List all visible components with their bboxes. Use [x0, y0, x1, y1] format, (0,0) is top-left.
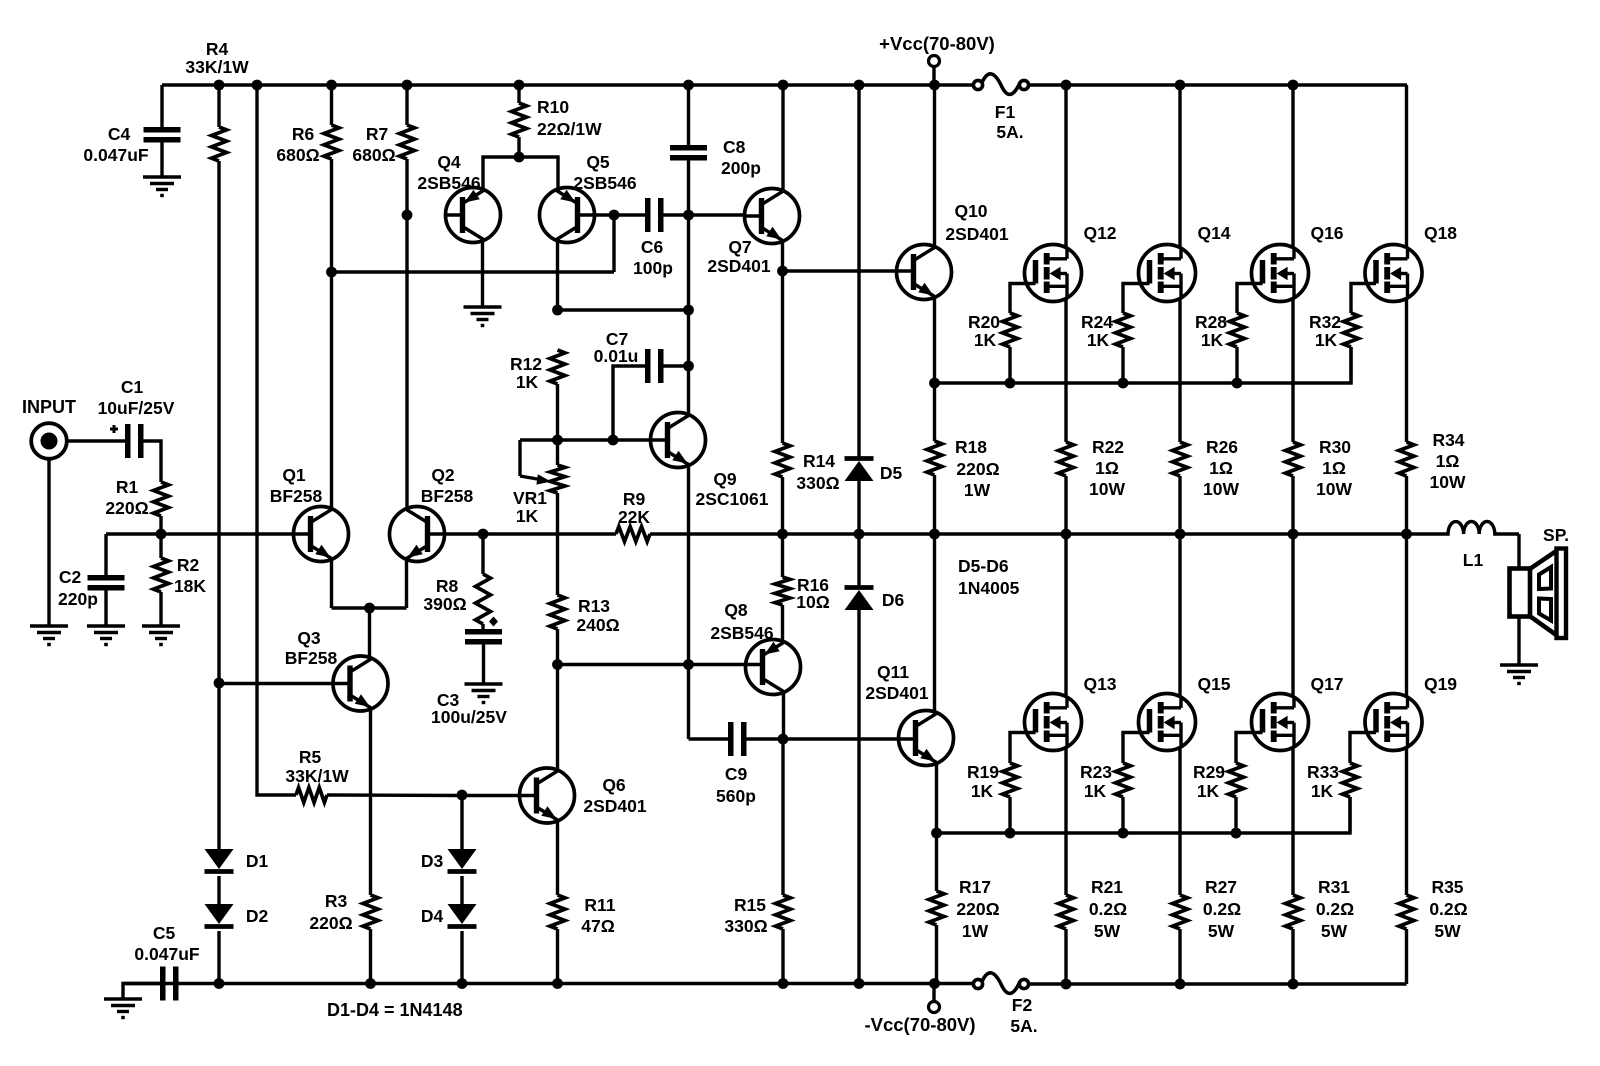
ground C5: [104, 997, 142, 1000]
svg-text:1K: 1K: [1311, 781, 1334, 801]
wire Q3 emitter to R3: [369, 707, 372, 895]
svg-text:R5: R5: [299, 747, 322, 767]
wire wiper line to Q9 base: [613, 438, 652, 441]
junction R18 output: [929, 529, 940, 540]
wire R2 to ground: [159, 592, 162, 626]
svg-text:R17: R17: [959, 877, 991, 897]
wire jack to C1: [66, 439, 125, 442]
wire to Q7 base: [689, 213, 746, 216]
wire rail corner to C4: [160, 85, 163, 127]
wire R28 to gate bus: [1235, 347, 1238, 383]
svg-text:R11: R11: [584, 895, 615, 915]
junction rail Q14: [1175, 80, 1186, 91]
svg-text:5W: 5W: [1208, 921, 1235, 941]
wire R16 to Q8 emitter: [781, 605, 784, 643]
capacitor C1: [125, 424, 131, 458]
wire R34 to output: [1405, 476, 1408, 534]
svg-text:560p: 560p: [716, 786, 756, 806]
wire output to Q19 drain: [1405, 534, 1408, 698]
transistor Q3: [333, 656, 388, 711]
svg-text:33K/1W: 33K/1W: [185, 57, 249, 77]
wire Q18 gate lead: [1351, 284, 1376, 314]
svg-text:100u/25V: 100u/25V: [431, 707, 507, 727]
junction R19 gate bus: [1005, 828, 1016, 839]
wire jack to ground: [47, 458, 50, 626]
svg-text:R22: R22: [1092, 437, 1124, 457]
svg-text:D5: D5: [880, 463, 903, 483]
resistor R32: [1344, 313, 1359, 347]
svg-text:D3: D3: [421, 851, 444, 871]
junction R17 bottom rail: [929, 978, 940, 989]
wire D5 to feedback line: [857, 481, 860, 534]
wire Q12 source to R22: [1064, 298, 1067, 442]
diode D4: [448, 904, 477, 924]
wire bottom rail left of fuse: [123, 982, 973, 985]
resistor R17: [929, 891, 944, 925]
svg-text:Q13: Q13: [1083, 674, 1116, 694]
svg-text:1K: 1K: [1201, 330, 1224, 350]
wire C9 to Q11 base: [747, 737, 900, 740]
resistor R21: [1059, 895, 1074, 929]
svg-text:R8: R8: [436, 576, 459, 596]
wire Q11 emitter down: [935, 762, 938, 891]
wire R13 to Q8 base line: [556, 629, 559, 665]
mosfet Q13: [1025, 694, 1082, 751]
fuse F2: [973, 979, 982, 988]
resistor R18: [927, 441, 942, 475]
transistor Q9: [651, 413, 706, 468]
wire R15 to bottom bus: [781, 929, 784, 983]
svg-text:D6: D6: [882, 590, 905, 610]
wire R29 to gate bus: [1234, 797, 1237, 833]
capacitor C8: [670, 145, 707, 151]
wire Q18 source to R34: [1405, 298, 1408, 442]
fuse F1: [973, 80, 982, 89]
svg-text:C6: C6: [641, 237, 664, 257]
svg-text:C1: C1: [121, 377, 144, 397]
wire R21 to bottom rail: [1064, 929, 1067, 984]
svg-text:240Ω: 240Ω: [576, 615, 619, 635]
wire rail to R4: [217, 85, 220, 127]
junction Q5 base node: [609, 210, 620, 221]
wire Q8 base line: [558, 663, 748, 666]
junction R6 mirror line: [326, 267, 337, 278]
svg-text:0.047uF: 0.047uF: [83, 145, 148, 165]
svg-text:10W: 10W: [1430, 472, 1466, 492]
svg-text:R21: R21: [1091, 877, 1123, 897]
wire Q7 emitter to Q10 base: [783, 269, 899, 272]
svg-text:1K: 1K: [971, 781, 994, 801]
junction D5 feedback: [854, 529, 865, 540]
svg-text:Q16: Q16: [1310, 223, 1343, 243]
resistor R30: [1286, 442, 1301, 476]
svg-text:220Ω: 220Ω: [309, 913, 352, 933]
wire C4 to ground: [160, 143, 163, 178]
svg-text:1W: 1W: [964, 480, 991, 500]
junction output column 2: [1175, 529, 1186, 540]
resistor R13: [550, 595, 565, 629]
ground C3: [465, 682, 503, 685]
svg-text:D1: D1: [246, 851, 269, 871]
svg-text:Q1: Q1: [282, 465, 306, 485]
mosfet Q19: [1365, 694, 1422, 751]
wire C6 node down: [612, 215, 615, 272]
svg-text:SP.: SP.: [1543, 525, 1569, 545]
svg-text:C5: C5: [153, 923, 176, 943]
transistor Q11: [899, 711, 954, 766]
ground C4: [143, 175, 181, 178]
svg-text:F2: F2: [1012, 995, 1033, 1015]
junction rail Q16: [1288, 80, 1299, 91]
wire rail to Q18 drain: [1405, 85, 1408, 248]
svg-text:1Ω: 1Ω: [1322, 458, 1346, 478]
wire R18 to output line: [933, 475, 936, 534]
svg-text:1K: 1K: [974, 330, 997, 350]
resistor R29: [1229, 763, 1244, 797]
wire Q7 emitter node to R14: [781, 271, 784, 443]
junction R23 gate bus: [1118, 828, 1129, 839]
wire R30 to output: [1291, 476, 1294, 534]
junction C8 C7 line: [683, 361, 694, 372]
speaker SP: [1510, 569, 1531, 617]
wire bottom rail right of fuse: [1029, 982, 1407, 985]
svg-text:33K/1W: 33K/1W: [285, 766, 349, 786]
svg-text:R26: R26: [1206, 437, 1238, 457]
svg-text:Q4: Q4: [437, 152, 461, 172]
wire Q17 gate lead: [1236, 733, 1263, 764]
svg-text:5W: 5W: [1094, 921, 1121, 941]
ground R2: [142, 624, 180, 627]
junction rail R6: [326, 80, 337, 91]
capacitor C6: [645, 198, 651, 232]
junction emitter tie: [364, 603, 375, 614]
wire Q19 source to R35: [1405, 747, 1408, 896]
capacitor C5: [160, 967, 166, 1001]
wire down to Q6 collector: [556, 665, 559, 772]
svg-text:5A.: 5A.: [996, 122, 1023, 142]
svg-text:1K: 1K: [516, 372, 539, 392]
capacitor C9: [728, 722, 734, 756]
svg-text:C4: C4: [108, 124, 131, 144]
svg-text:0.2Ω: 0.2Ω: [1316, 899, 1354, 919]
svg-text:10Ω: 10Ω: [796, 592, 830, 612]
svg-text:220p: 220p: [58, 589, 98, 609]
svg-text:200p: 200p: [721, 158, 761, 178]
wire R7 to Q2 collector: [405, 159, 408, 510]
svg-text:BF258: BF258: [285, 648, 338, 668]
resistor R12: [550, 350, 565, 384]
svg-text:100p: 100p: [633, 258, 673, 278]
svg-text:2SD401: 2SD401: [865, 683, 929, 703]
svg-text:0.047uF: 0.047uF: [134, 944, 199, 964]
junction R28 gate bus: [1232, 378, 1243, 389]
wire rail to Q16 drain: [1291, 85, 1294, 248]
wire R32 to gate bus: [1349, 347, 1352, 383]
svg-text:10W: 10W: [1203, 479, 1239, 499]
svg-text:1K: 1K: [1315, 330, 1338, 350]
svg-text:R30: R30: [1319, 437, 1351, 457]
wire L1 to speaker: [1517, 534, 1520, 568]
svg-text:1W: 1W: [962, 921, 989, 941]
wire Q13 source to R21: [1064, 747, 1067, 896]
svg-text:Q18: Q18: [1424, 223, 1457, 243]
junction output column 4: [1401, 529, 1412, 540]
transistor Q6: [520, 768, 575, 823]
junction R12 top: [552, 305, 563, 316]
mosfet Q17: [1252, 694, 1309, 751]
svg-text:680Ω: 680Ω: [276, 145, 319, 165]
junction R15 bottom bus: [778, 978, 789, 989]
svg-text:Q14: Q14: [1197, 223, 1230, 243]
svg-text:2SD401: 2SD401: [583, 796, 647, 816]
mosfet Q18: [1365, 245, 1422, 302]
junction output column 3: [1288, 529, 1299, 540]
mosfet Q12: [1025, 245, 1082, 302]
diode D6: [845, 585, 874, 590]
junction rail R4: [214, 80, 225, 91]
transistor Q7: [745, 189, 800, 244]
svg-text:Q12: Q12: [1083, 223, 1116, 243]
svg-text:L1: L1: [1463, 550, 1484, 570]
wire rail to Q7 collector: [781, 85, 784, 192]
junction R5 D3 node: [457, 790, 468, 801]
junction rail Q12: [1061, 80, 1072, 91]
capacitor C7: [645, 349, 651, 383]
wire rail down to R5: [257, 85, 296, 795]
ground speaker: [1500, 663, 1538, 666]
wire D3 node down: [460, 795, 463, 849]
svg-text:R29: R29: [1193, 762, 1225, 782]
svg-text:D1-D4 = 1N4148: D1-D4 = 1N4148: [327, 1000, 463, 1020]
svg-text:0.2Ω: 0.2Ω: [1089, 899, 1127, 919]
svg-text:2SB546: 2SB546: [710, 623, 774, 643]
svg-text:5W: 5W: [1434, 921, 1461, 941]
wire R3 to bottom bus: [369, 929, 372, 983]
junction bottom rail column 1: [1061, 979, 1072, 990]
wire D2 to bottom bus: [217, 931, 220, 983]
svg-text:R32: R32: [1309, 312, 1341, 332]
wire Q4 Q5 emitter tie: [483, 157, 558, 192]
wire R9 to output column: [650, 532, 1407, 535]
wire Q16 gate lead: [1237, 284, 1263, 314]
wire Q8 node to R15: [781, 739, 784, 895]
wire Q13 gate lead: [1010, 733, 1036, 764]
wire Q12 gate lead: [1010, 284, 1036, 314]
svg-text:10uF/25V: 10uF/25V: [98, 398, 175, 418]
input jack: [31, 423, 67, 459]
svg-text:Q6: Q6: [602, 775, 626, 795]
resistor R24: [1116, 313, 1131, 347]
resistor R31: [1286, 895, 1301, 929]
svg-text:R10: R10: [537, 97, 569, 117]
svg-text:1K: 1K: [1087, 330, 1110, 350]
transistor Q5: [540, 188, 595, 243]
junction R20 gate bus: [1005, 378, 1016, 389]
resistor R3: [363, 895, 378, 929]
svg-text:2SB546: 2SB546: [417, 173, 481, 193]
svg-text:2SD401: 2SD401: [707, 256, 771, 276]
wire VR1 to R13: [556, 493, 559, 595]
wire C2 to ground: [104, 591, 107, 627]
wire rail to Q14 drain: [1178, 85, 1181, 248]
junction R7 Q4 base: [402, 210, 413, 221]
diode D1: [205, 849, 234, 869]
terminal +Vcc: [929, 56, 940, 67]
svg-text:330Ω: 330Ω: [796, 473, 839, 493]
junction R13 Q6 collector: [552, 659, 563, 670]
wire feedback line to R9: [483, 532, 616, 535]
svg-text:47Ω: 47Ω: [581, 916, 615, 936]
svg-text:R27: R27: [1205, 877, 1237, 897]
svg-text:Q9: Q9: [713, 469, 737, 489]
wire output to Q17 drain: [1291, 534, 1294, 698]
svg-text:R1: R1: [116, 477, 139, 497]
svg-text:VR1: VR1: [513, 488, 547, 508]
svg-text:1Ω: 1Ω: [1436, 451, 1460, 471]
junction output column 1: [1061, 529, 1072, 540]
svg-text:INPUT: INPUT: [22, 397, 76, 417]
wire C1 to R1: [144, 441, 162, 482]
wire C6 node to C6: [614, 213, 645, 216]
resistor R7: [400, 125, 415, 159]
inductor L1: [1407, 521, 1520, 534]
svg-text:Q19: Q19: [1424, 674, 1457, 694]
resistor R9: [616, 527, 650, 542]
wire output to Q13 drain: [1064, 534, 1067, 698]
svg-text:F1: F1: [995, 102, 1016, 122]
wire Q17 source to R31: [1291, 747, 1294, 896]
svg-text:R7: R7: [366, 124, 388, 144]
wire C6 to C8 node: [664, 213, 689, 216]
svg-text:D2: D2: [246, 906, 269, 926]
wire rail to R10: [517, 85, 520, 103]
resistor R6: [324, 125, 339, 159]
polarity mark C3: [489, 617, 498, 627]
wire rail to Q10 collector: [933, 85, 936, 248]
wire rail corner to Q18: [1405, 83, 1409, 86]
svg-text:Q7: Q7: [728, 237, 751, 257]
svg-text:1K: 1K: [1197, 781, 1220, 801]
resistor R23: [1116, 763, 1131, 797]
wire tie to Q3 collector: [368, 608, 371, 660]
wire Q6 emitter to R11: [556, 820, 559, 895]
wire C3 to ground: [482, 645, 485, 685]
resistor R26: [1173, 442, 1188, 476]
wire Q14 gate lead: [1123, 284, 1150, 314]
transistor Q1: [294, 507, 349, 562]
svg-text:R14: R14: [803, 451, 835, 471]
svg-text:5W: 5W: [1321, 921, 1348, 941]
junction C8 Q7 base: [683, 210, 694, 221]
svg-text:-Vcc(70-80V): -Vcc(70-80V): [864, 1014, 975, 1035]
wire Q15 gate lead: [1123, 733, 1150, 764]
wire +Vcc terminal stub: [932, 67, 935, 85]
junction Q11 gate bus: [931, 828, 942, 839]
svg-text:R20: R20: [968, 312, 1000, 332]
svg-text:Q10: Q10: [954, 201, 987, 221]
junction rail Q7 collector: [778, 80, 789, 91]
svg-text:R2: R2: [177, 555, 200, 575]
junction C7 lead wiper line: [608, 435, 619, 446]
resistor R16: [775, 577, 790, 605]
wire D6 drop: [857, 534, 860, 586]
wire emitter tie: [332, 606, 407, 609]
ground C2: [87, 624, 125, 627]
wire Q19 gate lead: [1350, 733, 1376, 764]
wire rail to R6: [330, 85, 333, 125]
svg-text:220Ω: 220Ω: [956, 459, 999, 479]
wire R27 to bottom rail: [1178, 929, 1181, 984]
wire C9 left lead: [689, 737, 729, 740]
junction Q3 base node: [214, 678, 225, 689]
ground input jack: [30, 624, 68, 627]
svg-text:R3: R3: [325, 891, 348, 911]
junction VR1 wiper line: [552, 435, 563, 446]
resistor R27: [1173, 895, 1188, 929]
wire rail to R7: [405, 85, 408, 125]
wire Q1 emitter: [330, 558, 333, 608]
resistor R35: [1399, 895, 1414, 929]
wire R24 to gate bus: [1121, 347, 1124, 383]
resistor R4: [212, 127, 227, 161]
wire R22 to output: [1064, 476, 1067, 534]
wire Q3 base node to D1: [217, 683, 220, 849]
svg-text:R6: R6: [292, 124, 315, 144]
svg-text:C9: C9: [725, 764, 748, 784]
svg-text:1Ω: 1Ω: [1209, 458, 1233, 478]
junction R11 bottom bus: [552, 978, 563, 989]
wire +Vcc rail right of fuse F1: [1029, 83, 1407, 86]
wire mirror line: [332, 270, 615, 273]
junction R24 gate bus: [1118, 378, 1129, 389]
mosfet Q14: [1139, 245, 1196, 302]
wire R35 to bottom rail: [1405, 929, 1408, 984]
svg-text:C2: C2: [59, 567, 82, 587]
resistor R1: [154, 482, 169, 516]
junction D6 bottom bus: [854, 978, 865, 989]
junction rail D5: [854, 80, 865, 91]
wire Q5 base to C6 node: [593, 213, 614, 216]
wire rail to C8: [687, 85, 690, 145]
wire R33 to gate bus: [1348, 797, 1351, 833]
svg-text:Q3: Q3: [297, 628, 321, 648]
svg-text:10W: 10W: [1316, 479, 1352, 499]
wire Q3 base line: [219, 682, 334, 685]
svg-text:R34: R34: [1432, 430, 1464, 450]
junction input node: [156, 529, 167, 540]
svg-text:Q8: Q8: [724, 600, 748, 620]
wire C5 to ground: [123, 984, 160, 1000]
capacitor C3: [465, 629, 502, 635]
svg-text:5A.: 5A.: [1010, 1016, 1037, 1036]
wire R1 to input node: [159, 516, 162, 534]
wire Q9 emitter to C9: [687, 665, 690, 740]
junction bottom rail column 3: [1288, 979, 1299, 990]
wire Q10 emitter down: [933, 296, 936, 441]
wire Q5 collector down: [556, 239, 559, 310]
svg-text:BF258: BF258: [421, 486, 474, 506]
wire rail to D5: [857, 85, 860, 457]
svg-text:10W: 10W: [1089, 479, 1125, 499]
wire Q7 emitter down: [781, 240, 784, 271]
wire feedback to R16: [781, 534, 784, 577]
junction C9 Q8 node: [778, 734, 789, 745]
wire D6 to bottom bus: [857, 610, 860, 983]
junction rail R7: [402, 80, 413, 91]
svg-text:390Ω: 390Ω: [423, 594, 466, 614]
junction R8 node: [478, 529, 489, 540]
wire speaker to ground: [1517, 617, 1520, 666]
